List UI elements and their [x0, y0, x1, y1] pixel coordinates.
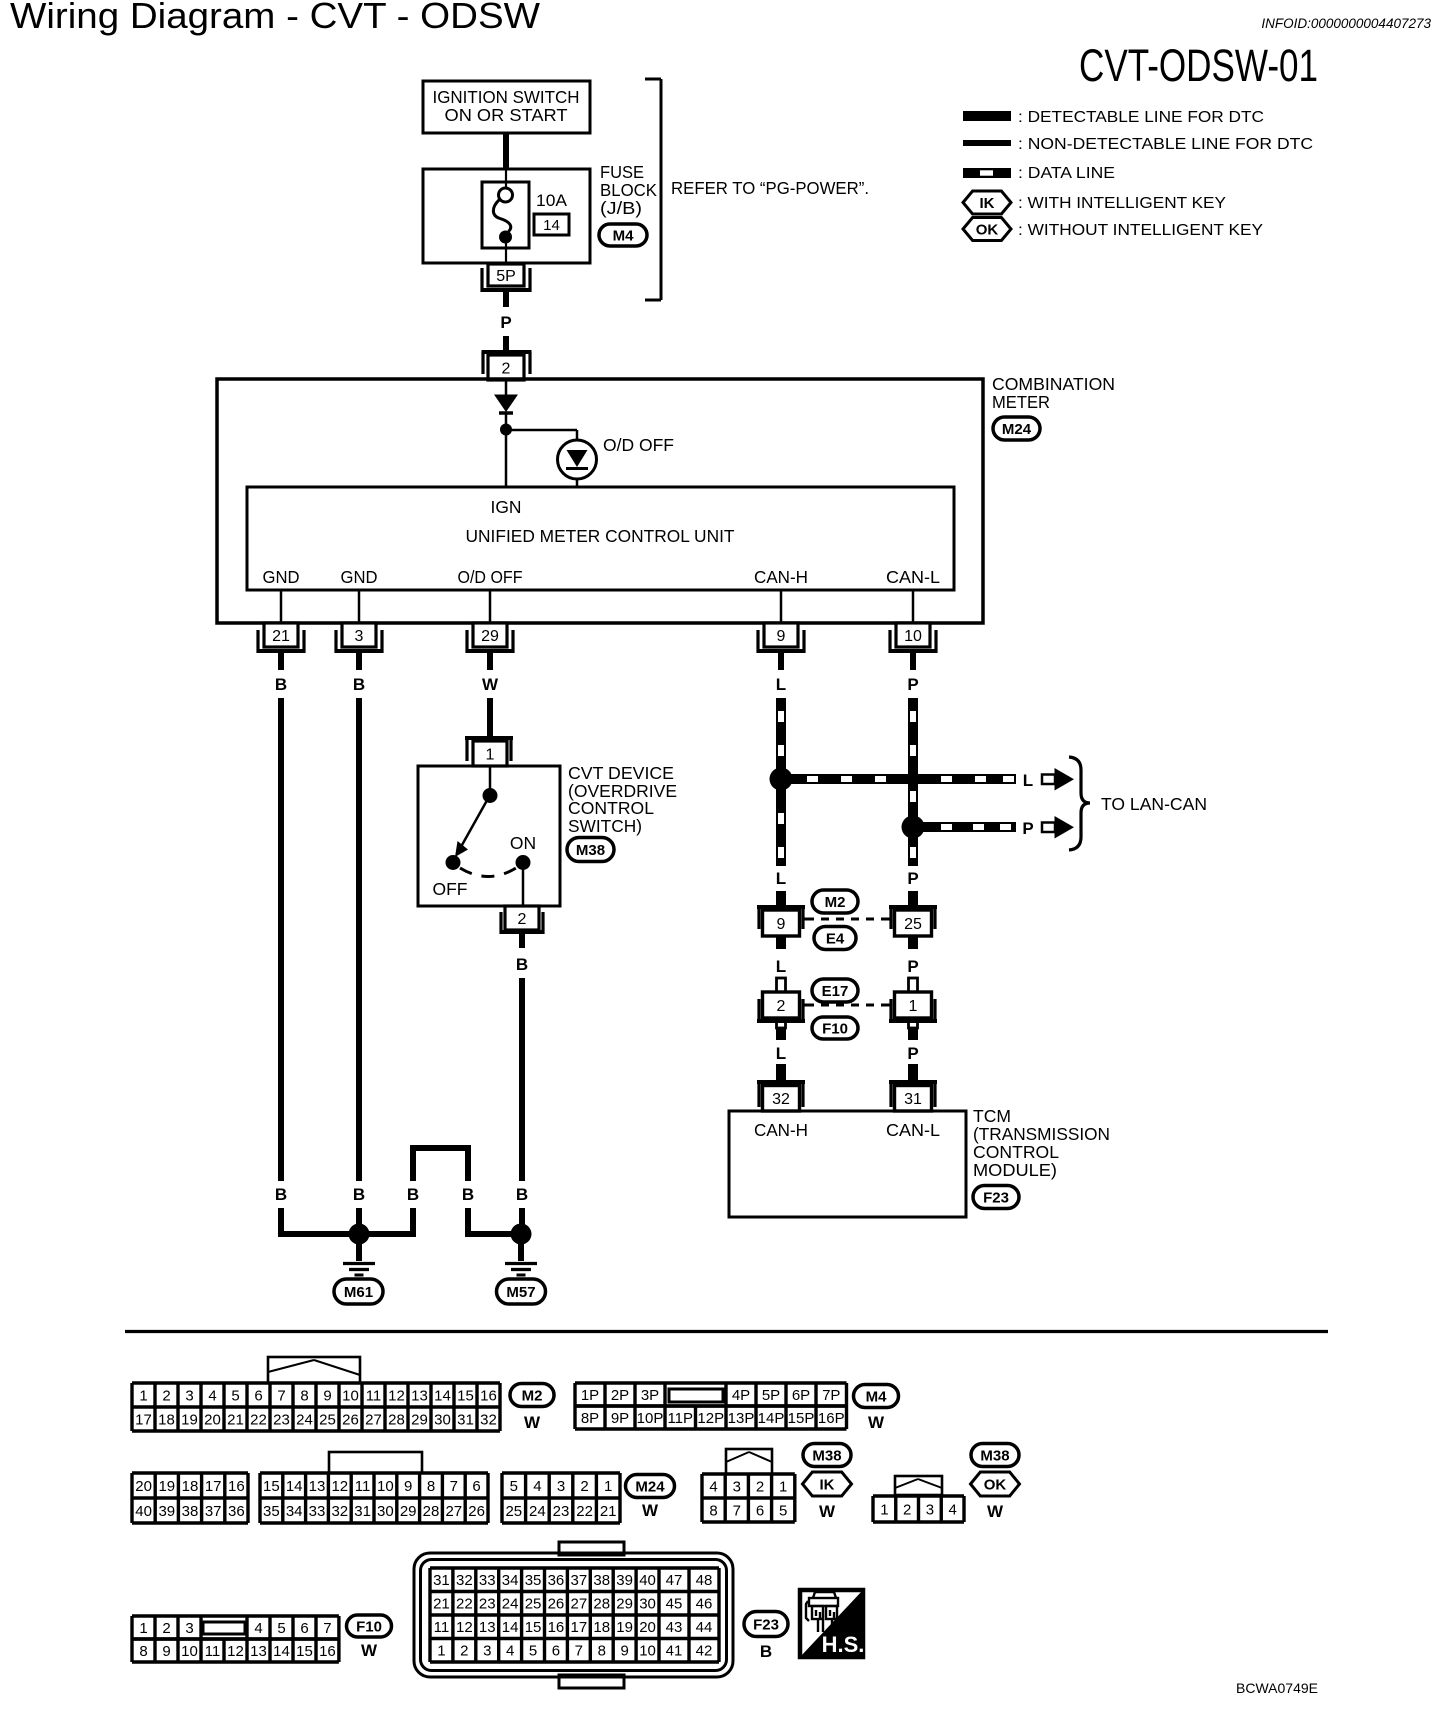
svg-text:ON: ON	[510, 833, 536, 853]
svg-text:CAN-L: CAN-L	[886, 1120, 940, 1140]
svg-text:GND: GND	[341, 567, 378, 587]
svg-text:25: 25	[525, 1596, 542, 1613]
svg-text:6P: 6P	[792, 1387, 810, 1404]
svg-text:P: P	[1022, 819, 1033, 838]
svg-text:9: 9	[777, 628, 786, 645]
svg-text:32: 32	[480, 1411, 497, 1428]
svg-text:31: 31	[904, 1091, 922, 1108]
svg-text:29: 29	[411, 1411, 428, 1428]
connector view id F23	[744, 1612, 788, 1637]
CAN-H hollow stub above connector E17-2	[777, 978, 786, 992]
svg-text:1: 1	[139, 1620, 147, 1637]
svg-text:36: 36	[548, 1572, 565, 1589]
CAN-L stub below connector 1	[909, 1021, 918, 1028]
switch common contact	[489, 766, 492, 789]
svg-text:2: 2	[162, 1620, 170, 1637]
svg-text:37: 37	[205, 1503, 222, 1520]
stub wire under terminal 21	[278, 653, 284, 670]
svg-text:15: 15	[525, 1619, 542, 1636]
CVT device connector id M38	[567, 838, 614, 862]
wire B CVT to ground	[519, 978, 525, 1181]
connector view OK symbol	[971, 1472, 1020, 1496]
svg-text:33: 33	[479, 1572, 496, 1589]
svg-text:1: 1	[779, 1478, 787, 1495]
svg-text:34: 34	[502, 1572, 519, 1589]
connector id E17	[812, 979, 858, 1002]
svg-text:FUSE: FUSE	[600, 162, 644, 182]
svg-text:26: 26	[548, 1596, 565, 1613]
brace to LAN-CAN	[1069, 757, 1090, 850]
svg-text:4: 4	[506, 1643, 514, 1660]
TCM connector id F23	[973, 1186, 1019, 1209]
svg-text:3: 3	[185, 1620, 193, 1637]
connector id E4	[814, 927, 856, 950]
svg-text:CAN-H: CAN-H	[754, 1120, 808, 1140]
connector M2/E4 mating dashed line	[806, 918, 888, 921]
stub wire under terminal 9	[778, 653, 784, 670]
svg-text:24: 24	[296, 1411, 313, 1428]
svg-text:W: W	[361, 1641, 378, 1660]
svg-text:O/D OFF: O/D OFF	[458, 567, 523, 587]
svg-text:41: 41	[666, 1643, 683, 1660]
svg-text:F23: F23	[753, 1616, 779, 1633]
svg-text:17: 17	[205, 1478, 222, 1495]
svg-text:B: B	[275, 675, 287, 694]
svg-text:3: 3	[483, 1643, 491, 1660]
svg-text:26: 26	[342, 1411, 359, 1428]
svg-text:10: 10	[377, 1478, 394, 1495]
svg-text:8: 8	[598, 1643, 606, 1660]
svg-text:37: 37	[571, 1572, 588, 1589]
switch ON contact	[516, 855, 531, 870]
wire B gnd3 down	[356, 698, 362, 1181]
connector view M24 clip bump	[329, 1452, 422, 1473]
svg-text:33: 33	[309, 1503, 326, 1520]
svg-text:METER: METER	[992, 392, 1050, 412]
svg-text:18: 18	[158, 1411, 175, 1428]
svg-text:CONTROL: CONTROL	[973, 1142, 1059, 1162]
svg-text:21: 21	[272, 628, 290, 645]
svg-text:8: 8	[300, 1387, 308, 1404]
svg-text:3: 3	[557, 1478, 565, 1495]
svg-text:W: W	[868, 1413, 885, 1432]
CAN-L stub to connector M2-25	[908, 891, 918, 906]
svg-text:W: W	[642, 1501, 659, 1520]
svg-text:9: 9	[620, 1643, 628, 1660]
svg-text:30: 30	[434, 1411, 451, 1428]
svg-text:13: 13	[479, 1619, 496, 1636]
svg-text:30: 30	[377, 1503, 394, 1520]
svg-text:10A: 10A	[536, 192, 567, 210]
svg-text:29: 29	[616, 1596, 633, 1613]
fuse block J/B box	[423, 169, 590, 263]
svg-text:38: 38	[593, 1572, 610, 1589]
svg-text:20: 20	[204, 1411, 221, 1428]
svg-text:B: B	[353, 1185, 365, 1204]
CAN-H stub to connector M2-9	[776, 891, 786, 906]
ground id M61	[334, 1279, 383, 1304]
svg-text:W: W	[819, 1502, 836, 1521]
svg-text:: DATA LINE: : DATA LINE	[1018, 165, 1115, 182]
svg-text:34: 34	[286, 1503, 303, 1520]
svg-text:5: 5	[779, 1502, 787, 1519]
svg-text:IK: IK	[820, 1476, 835, 1493]
svg-text:B: B	[462, 1185, 474, 1204]
LAN branch P arrow	[1042, 823, 1055, 833]
svg-text:E4: E4	[826, 930, 845, 947]
svg-text:5P: 5P	[496, 268, 516, 285]
svg-text:12: 12	[227, 1643, 244, 1660]
svg-text:M24: M24	[635, 1478, 665, 1495]
H.S. inspection mark	[800, 1590, 863, 1657]
svg-text:M4: M4	[866, 1388, 887, 1405]
CVT device box	[418, 766, 560, 906]
svg-text:28: 28	[423, 1503, 440, 1520]
svg-text:45: 45	[666, 1596, 683, 1613]
svg-text:E17: E17	[822, 983, 849, 1000]
svg-text:Wiring Diagram - CVT - ODSW: Wiring Diagram - CVT - ODSW	[10, 0, 540, 36]
svg-text:M2: M2	[522, 1387, 543, 1404]
connector 5P fuse block	[480, 268, 483, 292]
connector E17/F10 mating dashed line	[806, 1004, 888, 1007]
svg-text:7: 7	[733, 1502, 741, 1519]
svg-text:CVT-ODSW-01: CVT-ODSW-01	[1079, 40, 1318, 91]
svg-text:INFOID:0000000004407273: INFOID:0000000004407273	[1261, 16, 1431, 31]
combination meter connector id M24	[993, 417, 1040, 440]
svg-text:TCM: TCM	[973, 1106, 1011, 1126]
svg-text:B: B	[516, 955, 528, 974]
svg-text:14P: 14P	[758, 1410, 785, 1427]
legend IK symbol	[963, 191, 1011, 214]
svg-text:9P: 9P	[611, 1410, 629, 1427]
connector 2 CVT device	[505, 906, 539, 930]
svg-text:5: 5	[529, 1643, 537, 1660]
legend OK symbol	[963, 218, 1011, 241]
svg-text:22: 22	[576, 1503, 593, 1520]
svg-text:11P: 11P	[667, 1410, 693, 1427]
ground bus wire right	[465, 1231, 524, 1237]
svg-text:31: 31	[354, 1503, 371, 1520]
svg-text:IGN: IGN	[491, 497, 522, 517]
svg-text:39: 39	[158, 1503, 175, 1520]
svg-text:6: 6	[552, 1643, 560, 1660]
svg-text:2: 2	[162, 1387, 170, 1404]
CAN-L stub below connector 25	[908, 936, 918, 949]
connector terminal 9	[764, 623, 798, 647]
svg-text:7: 7	[450, 1478, 458, 1495]
svg-text:19: 19	[158, 1478, 175, 1495]
wire ignition to fuse block	[503, 133, 509, 169]
ground bus wire left	[278, 1231, 416, 1237]
svg-text:2: 2	[460, 1643, 468, 1660]
svg-text:B: B	[407, 1185, 419, 1204]
svg-text:: NON-DETECTABLE LINE FOR DTC: : NON-DETECTABLE LINE FOR DTC	[1018, 136, 1313, 153]
TCM connector terminal 32	[757, 1080, 805, 1084]
connector view M2 clip bump	[268, 1357, 360, 1383]
svg-text:28: 28	[593, 1596, 610, 1613]
stub wire under terminal 29	[487, 653, 493, 670]
connector 1 CVT device	[465, 736, 513, 740]
TCM box	[729, 1111, 966, 1217]
ground junction node M57	[511, 1224, 532, 1245]
svg-text:2: 2	[518, 911, 527, 928]
svg-text:10: 10	[342, 1387, 359, 1404]
svg-text:P: P	[500, 313, 511, 332]
CAN-H branch data line to LAN	[781, 774, 1016, 784]
svg-text:18: 18	[593, 1619, 610, 1636]
svg-text:REFER TO “PG-POWER”.: REFER TO “PG-POWER”.	[671, 178, 869, 198]
svg-text:13: 13	[309, 1478, 326, 1495]
svg-text:23: 23	[479, 1596, 496, 1613]
svg-text:47: 47	[666, 1572, 683, 1589]
svg-text:16: 16	[480, 1387, 497, 1404]
svg-text:M61: M61	[344, 1284, 373, 1301]
junction node after diode	[500, 424, 512, 436]
CAN-L hollow stub above connector E17-1	[909, 978, 918, 992]
switch OFF contact	[446, 855, 461, 870]
svg-text:(TRANSMISSION: (TRANSMISSION	[973, 1124, 1110, 1144]
svg-text:20: 20	[135, 1478, 152, 1495]
svg-text:11: 11	[434, 1619, 450, 1636]
svg-text:2: 2	[903, 1501, 911, 1518]
svg-text:2P: 2P	[611, 1387, 629, 1404]
bridge jumper wire	[410, 1208, 416, 1234]
svg-text:BCWA0749E: BCWA0749E	[1236, 1680, 1318, 1696]
svg-text:16: 16	[228, 1478, 245, 1495]
svg-text:9: 9	[323, 1387, 331, 1404]
svg-text:29: 29	[481, 628, 499, 645]
svg-text:1: 1	[437, 1643, 445, 1660]
svg-text:4: 4	[709, 1478, 717, 1495]
svg-text:32: 32	[331, 1503, 348, 1520]
svg-text:9: 9	[777, 916, 786, 933]
svg-text:4: 4	[533, 1478, 541, 1495]
CAN-H junction node	[770, 768, 793, 791]
svg-text:2: 2	[777, 998, 786, 1015]
svg-text:15: 15	[457, 1387, 474, 1404]
svg-text:H.S.: H.S.	[822, 1632, 865, 1657]
svg-text:MODULE): MODULE)	[973, 1160, 1057, 1180]
svg-text:W: W	[524, 1413, 541, 1432]
svg-text:5P: 5P	[762, 1387, 780, 1404]
wire B gnd21 down	[278, 698, 284, 1181]
svg-text:P: P	[907, 1044, 918, 1063]
svg-text:M57: M57	[506, 1284, 535, 1301]
svg-text:B: B	[353, 675, 365, 694]
svg-text:25: 25	[319, 1411, 336, 1428]
svg-text:7: 7	[323, 1620, 331, 1637]
H.S. connector pictogram	[806, 1592, 838, 1632]
svg-text:M24: M24	[1002, 421, 1032, 438]
svg-text:IGNITION SWITCH: IGNITION SWITCH	[433, 87, 580, 107]
wire P fuse to meter	[503, 292, 509, 307]
svg-text:27: 27	[365, 1411, 382, 1428]
svg-text:11: 11	[205, 1643, 221, 1660]
svg-text:IK: IK	[980, 195, 995, 212]
diode D1 in meter	[505, 381, 508, 396]
connector view F23 bottom tab	[559, 1675, 624, 1688]
svg-text:36: 36	[228, 1503, 245, 1520]
CAN-L branch data line to LAN	[913, 822, 1016, 832]
svg-text:24: 24	[502, 1596, 519, 1613]
svg-text:10: 10	[181, 1643, 198, 1660]
O/D OFF indicator lamp LED	[558, 440, 597, 479]
svg-text:14: 14	[286, 1478, 303, 1495]
svg-text:5: 5	[510, 1478, 518, 1495]
CAN-L stub to TCM connector 31	[908, 1064, 918, 1080]
svg-text:OK: OK	[976, 221, 999, 238]
pin wire GND 21	[280, 590, 283, 623]
stub wire under terminal 3	[356, 653, 362, 670]
svg-text:CONTROL: CONTROL	[568, 798, 654, 818]
svg-text:3P: 3P	[641, 1387, 659, 1404]
svg-text:SWITCH): SWITCH)	[568, 816, 642, 836]
svg-text:10P: 10P	[637, 1410, 664, 1427]
svg-text:P: P	[907, 957, 918, 976]
fuse block connector id M4	[599, 224, 647, 246]
svg-text:35: 35	[263, 1503, 280, 1520]
svg-text:UNIFIED METER CONTROL UNIT: UNIFIED METER CONTROL UNIT	[466, 526, 735, 546]
svg-text:GND: GND	[263, 567, 300, 587]
svg-text:22: 22	[456, 1596, 473, 1613]
svg-text:6: 6	[472, 1478, 480, 1495]
svg-text:1: 1	[139, 1387, 147, 1404]
svg-text:32: 32	[772, 1091, 790, 1108]
ignition switch source box	[423, 81, 590, 133]
svg-text:8: 8	[709, 1502, 717, 1519]
svg-text:B: B	[760, 1642, 772, 1661]
svg-text:: WITH INTELLIGENT KEY: : WITH INTELLIGENT KEY	[1018, 195, 1226, 212]
svg-text:CAN-H: CAN-H	[754, 567, 808, 587]
CAN-H stub below connector 2	[777, 1021, 786, 1028]
ground symbol M57	[518, 1239, 524, 1261]
CAN-L junction node	[902, 816, 925, 839]
svg-text:13: 13	[411, 1387, 428, 1404]
svg-text:F10: F10	[822, 1020, 848, 1037]
svg-text:M2: M2	[825, 894, 846, 911]
refer to PG-POWER bracket	[660, 79, 663, 300]
svg-text:12P: 12P	[697, 1410, 724, 1427]
svg-text:M38: M38	[576, 842, 605, 859]
connector view F23 housing	[414, 1553, 733, 1677]
switch arm with arrow	[462, 795, 490, 845]
svg-text:15P: 15P	[788, 1410, 815, 1427]
svg-text:BLOCK: BLOCK	[600, 180, 657, 200]
connector view id M24	[626, 1475, 675, 1498]
connector terminal 3	[342, 623, 376, 647]
svg-text:39: 39	[616, 1572, 633, 1589]
svg-text:7: 7	[575, 1643, 583, 1660]
fuse 10A	[482, 182, 529, 248]
separator line	[125, 1330, 1328, 1333]
svg-text:L: L	[1023, 771, 1033, 790]
svg-text:3: 3	[355, 628, 364, 645]
ground symbol M61	[356, 1239, 362, 1261]
connector 2 combination meter	[482, 350, 532, 354]
svg-text:31: 31	[433, 1572, 450, 1589]
connector F10 terminal 1	[889, 1019, 937, 1023]
svg-text:18: 18	[182, 1478, 199, 1495]
CAN-L data line vertical	[908, 698, 918, 866]
wire W meter to CVT device	[487, 698, 493, 739]
svg-text:27: 27	[445, 1503, 462, 1520]
svg-text:W: W	[987, 1502, 1004, 1521]
svg-text:32: 32	[456, 1572, 473, 1589]
connector view M4 fuse slot	[669, 1389, 723, 1402]
svg-text:7: 7	[277, 1387, 285, 1404]
legend non-detectable line sample	[963, 140, 1011, 146]
svg-text:14: 14	[543, 217, 560, 234]
svg-text:COMBINATION: COMBINATION	[992, 374, 1115, 394]
svg-text:4P: 4P	[732, 1387, 750, 1404]
connector E4 terminal 25	[889, 905, 937, 909]
svg-text:11: 11	[366, 1387, 382, 1404]
pin wire CAN-L 10	[912, 590, 915, 623]
stub wire under CVT terminal 2	[519, 934, 525, 948]
svg-text:21: 21	[227, 1411, 244, 1428]
svg-text:31: 31	[457, 1411, 474, 1428]
svg-text:O/D OFF: O/D OFF	[603, 435, 674, 455]
svg-text:CAN-L: CAN-L	[886, 567, 940, 587]
svg-text:TO LAN-CAN: TO LAN-CAN	[1101, 794, 1207, 814]
svg-text:5: 5	[277, 1620, 285, 1637]
unified meter control unit box	[247, 487, 954, 590]
svg-text:22: 22	[250, 1411, 267, 1428]
legend detectable line sample	[963, 111, 1011, 121]
svg-text:L: L	[776, 869, 786, 888]
svg-text:19: 19	[181, 1411, 198, 1428]
svg-text:23: 23	[553, 1503, 570, 1520]
svg-text:(J/B): (J/B)	[600, 198, 642, 218]
svg-text:19: 19	[616, 1619, 633, 1636]
svg-text:OK: OK	[984, 1476, 1007, 1493]
svg-text:24: 24	[529, 1503, 546, 1520]
connector M2 terminal 9	[757, 905, 805, 909]
svg-text:1: 1	[880, 1501, 888, 1518]
svg-text:M38: M38	[812, 1447, 841, 1464]
svg-text:8: 8	[139, 1643, 147, 1660]
CAN-H stub to TCM connector 32	[776, 1064, 786, 1080]
svg-text:13: 13	[250, 1643, 267, 1660]
svg-text:27: 27	[571, 1596, 588, 1613]
ground id M57	[497, 1279, 546, 1304]
svg-text:44: 44	[696, 1619, 713, 1636]
svg-text:30: 30	[639, 1596, 656, 1613]
svg-text:9: 9	[162, 1643, 170, 1660]
svg-text:21: 21	[433, 1596, 450, 1613]
svg-text:43: 43	[666, 1619, 683, 1636]
svg-text:P: P	[907, 675, 918, 694]
svg-text:15: 15	[263, 1478, 280, 1495]
svg-text:9: 9	[404, 1478, 412, 1495]
connector id M2	[812, 890, 858, 913]
svg-text:OFF: OFF	[433, 879, 468, 899]
svg-text:14: 14	[502, 1619, 519, 1636]
svg-text:5: 5	[231, 1387, 239, 1404]
svg-text:3: 3	[733, 1478, 741, 1495]
svg-text:38: 38	[182, 1503, 199, 1520]
connector id F10	[812, 1017, 858, 1039]
svg-text:25: 25	[505, 1503, 522, 1520]
svg-text:3: 3	[185, 1387, 193, 1404]
pin wire O/D OFF 29	[489, 590, 492, 623]
svg-text:25: 25	[904, 916, 922, 933]
combination meter box	[217, 379, 983, 623]
svg-text:42: 42	[696, 1643, 713, 1660]
svg-text:2: 2	[756, 1478, 764, 1495]
svg-text:1: 1	[604, 1478, 612, 1495]
svg-text:17: 17	[571, 1619, 588, 1636]
